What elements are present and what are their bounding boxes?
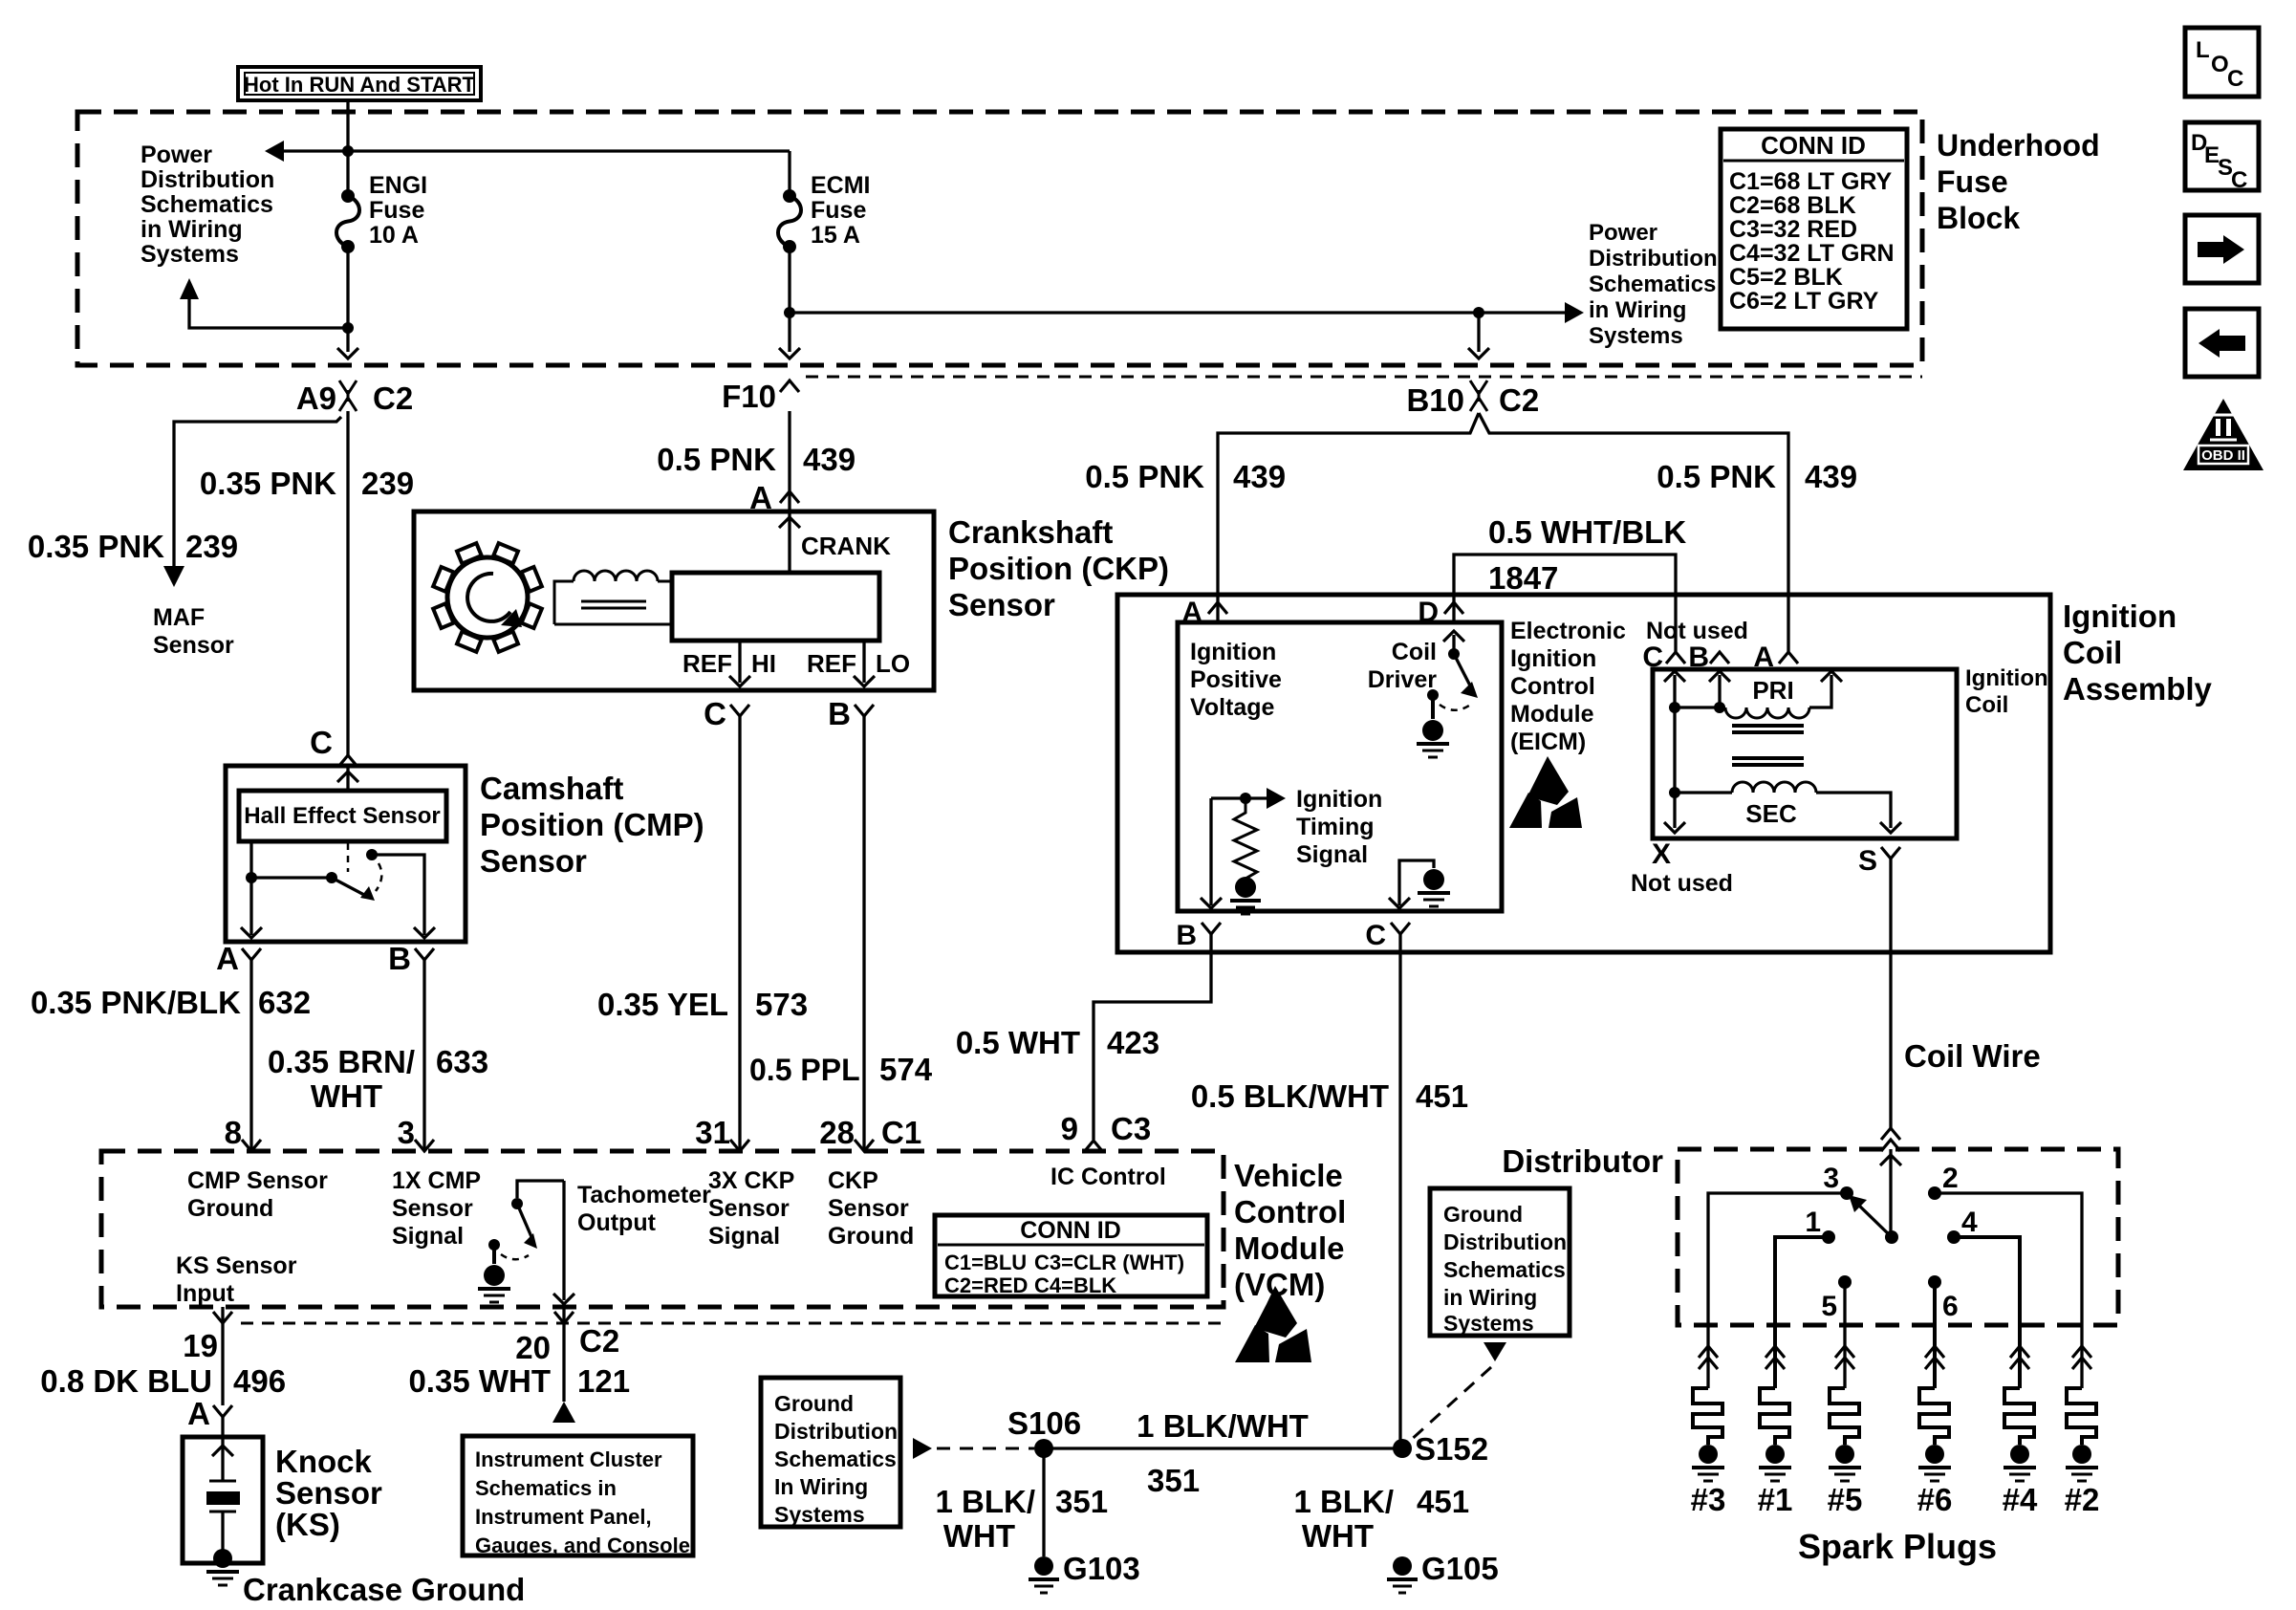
label 0.5 PNK 439 (right branch): [1657, 459, 1857, 494]
svg-text:Schematics in: Schematics in: [475, 1476, 617, 1500]
CKP sensor element box: [672, 573, 879, 641]
wire 423 EICM-B to VCM 9: [1094, 934, 1211, 1140]
wire 121 to instrument cluster: [552, 1307, 575, 1423]
label 0.5 WHT/BLK: [1488, 514, 1686, 550]
svg-text:Module: Module: [1510, 701, 1594, 728]
svg-text:Coil: Coil: [1965, 692, 2008, 718]
svg-text:574: 574: [879, 1052, 933, 1087]
plug wire 5: [1843, 1282, 1846, 1388]
svg-text:423: 423: [1107, 1025, 1159, 1060]
svg-text:10 A: 10 A: [369, 222, 419, 249]
svg-text:G103: G103: [1063, 1551, 1140, 1586]
svg-text:SEC: SEC: [1745, 799, 1797, 828]
svg-text:In Wiring: In Wiring: [774, 1474, 868, 1499]
svg-text:WHT: WHT: [943, 1518, 1015, 1554]
svg-text:Distribution: Distribution: [141, 166, 274, 193]
svg-text:1 BLK/: 1 BLK/: [1293, 1484, 1394, 1519]
icon DESC button: [2185, 122, 2259, 193]
coil wire inline connector: [1881, 1128, 1900, 1151]
svg-text:0.5 PNK: 0.5 PNK: [657, 442, 776, 477]
svg-text:#3: #3: [1691, 1482, 1726, 1517]
connector A at EICM: [1181, 597, 1227, 628]
svg-text:Timing: Timing: [1296, 814, 1374, 840]
svg-text:#1: #1: [1758, 1482, 1793, 1517]
wire 351 S106 to S152: [1044, 1447, 1402, 1449]
crankshaft position sensor box: [414, 511, 934, 690]
VCM connector-row dashed line: [241, 1322, 1224, 1325]
svg-text:Ignition: Ignition: [1296, 786, 1382, 813]
svg-text:WHT: WHT: [311, 1078, 382, 1114]
label Electronic Ignition Control Module (EICM): [1510, 618, 1626, 755]
connector A at knock sensor: [187, 1396, 232, 1431]
svg-text:Knock: Knock: [275, 1444, 373, 1479]
svg-text:Assembly: Assembly: [2063, 671, 2213, 707]
svg-text:C6=2 LT GRY: C6=2 LT GRY: [1729, 288, 1879, 315]
wire 573 CKP-C to VCM 31: [738, 716, 741, 1151]
svg-text:121: 121: [577, 1363, 630, 1399]
svg-text:Hot In RUN And START: Hot In RUN And START: [244, 73, 476, 97]
svg-text:Coil: Coil: [1392, 639, 1437, 665]
label Ignition Timing Signal: [1296, 786, 1382, 868]
svg-text:Schematics: Schematics: [1589, 272, 1716, 297]
svg-text:1: 1: [1805, 1207, 1821, 1238]
svg-text:Fuse: Fuse: [811, 197, 866, 224]
svg-text:Voltage: Voltage: [1190, 694, 1275, 721]
connector S below ignition coil: [1858, 845, 1900, 877]
svg-text:OBD II: OBD II: [2201, 447, 2245, 464]
svg-text:Output: Output: [577, 1209, 657, 1236]
connector B below CKP: [828, 696, 874, 731]
wire 451 EICM-C to S152: [1398, 934, 1401, 1448]
svg-text:CONN ID: CONN ID: [1761, 131, 1866, 160]
label 1847: [1488, 560, 1558, 596]
svg-text:IC Control: IC Control: [1051, 1164, 1166, 1190]
label Distributor: [1502, 1143, 1663, 1179]
svg-text:Distribution: Distribution: [1589, 246, 1718, 272]
svg-text:C: C: [704, 696, 726, 731]
ground G103: [1029, 1551, 1140, 1593]
label 3X CKP Sensor Signal: [708, 1167, 794, 1250]
coil wire: [1891, 859, 2041, 1128]
ignition coil assembly box: [1117, 595, 2050, 952]
svg-text:O: O: [2211, 52, 2229, 77]
svg-text:Sensor: Sensor: [392, 1195, 473, 1222]
svg-text:1 BLK/: 1 BLK/: [935, 1484, 1035, 1519]
connector 31 at VCM: [695, 1115, 749, 1151]
svg-text:Not used: Not used: [1631, 870, 1733, 897]
svg-text:PRI: PRI: [1752, 676, 1793, 705]
svg-text:in Wiring: in Wiring: [1589, 297, 1686, 323]
svg-text:439: 439: [803, 442, 856, 477]
plug wire 1: [1775, 1237, 1829, 1388]
rotor contact 3: [1823, 1163, 1853, 1200]
svg-text:MAF: MAF: [153, 604, 205, 631]
rotor contact 1: [1805, 1207, 1835, 1244]
svg-text:Tachometer: Tachometer: [577, 1182, 711, 1208]
svg-text:0.5 WHT: 0.5 WHT: [956, 1025, 1080, 1060]
svg-text:L: L: [2196, 37, 2210, 63]
underhood fuse block dashed boundary: [77, 112, 1922, 365]
tachometer switch: [488, 1181, 564, 1264]
label 0.35 BRN/ WHT 633: [268, 1044, 488, 1114]
up arrow into Power Distribution text: [180, 278, 354, 334]
svg-text:0.35 PNK: 0.35 PNK: [200, 466, 336, 501]
svg-text:632: 632: [258, 985, 311, 1020]
VCM CONN ID table: [935, 1215, 1207, 1297]
label 0.5 PNK 439 (F10 wire): [657, 442, 856, 477]
label Ignition Positive Voltage: [1190, 639, 1282, 721]
svg-text:Instrument Panel,: Instrument Panel,: [475, 1505, 652, 1529]
wire 574 CKP-B to VCM 28: [862, 716, 865, 1151]
svg-text:C: C: [1365, 920, 1386, 951]
svg-text:2: 2: [1942, 1163, 1959, 1194]
svg-text:Systems: Systems: [1443, 1311, 1534, 1336]
wire ECMI fuse down to F10: [779, 247, 800, 359]
svg-text:Input: Input: [176, 1280, 235, 1307]
svg-text:C1=68 LT GRY: C1=68 LT GRY: [1729, 168, 1893, 195]
connector 3 at VCM: [398, 1115, 434, 1151]
CRANK wire inside CKP: [779, 511, 891, 573]
rotor contact 4: [1947, 1207, 1978, 1244]
svg-text:Positive: Positive: [1190, 666, 1282, 693]
svg-text:C4=32 LT GRN: C4=32 LT GRN: [1729, 240, 1895, 267]
svg-text:Schematics: Schematics: [774, 1447, 897, 1471]
svg-text:0.35 PNK: 0.35 PNK: [28, 529, 164, 564]
spark plug #5: [1828, 1346, 1863, 1517]
label Vehicle Control Module (VCM): [1234, 1158, 1346, 1302]
ESD warning symbol (EICM): [1509, 756, 1582, 828]
svg-text:CKP: CKP: [828, 1167, 878, 1194]
svg-text:5: 5: [1821, 1291, 1837, 1322]
label Ignition Coil (inner): [1965, 665, 2048, 718]
connector B10 C2: [1406, 381, 1539, 418]
timing resistor: [1234, 798, 1257, 885]
svg-text:C: C: [1642, 642, 1663, 673]
wire down to fuse ECMI: [788, 151, 791, 196]
svg-text:Systems: Systems: [774, 1502, 865, 1527]
svg-text:Ignition: Ignition: [1510, 645, 1596, 672]
rotor arm: [1849, 1195, 1898, 1244]
plug wire 3: [1708, 1193, 1847, 1388]
svg-text:C5=2 BLK: C5=2 BLK: [1729, 264, 1843, 291]
svg-text:20: 20: [515, 1330, 551, 1365]
svg-text:0.35 WHT: 0.35 WHT: [408, 1363, 551, 1399]
splice S106: [1007, 1405, 1081, 1458]
label 1X CMP Sensor Signal: [392, 1167, 481, 1250]
fuse ENGI 10 A: [336, 189, 359, 253]
CONN ID table (underhood fuse block): [1721, 129, 1907, 329]
EICM box: [1178, 622, 1502, 911]
underhood fuse block connector-row dashed line: [806, 376, 1922, 379]
label Spark Plugs: [1798, 1527, 1997, 1566]
connector D at EICM: [1418, 597, 1463, 628]
svg-text:X: X: [1652, 838, 1671, 870]
wire A9 to CMP sensor: [346, 411, 349, 755]
hall effect sensor box: [239, 791, 446, 841]
plug wire 6: [1933, 1282, 1937, 1388]
REF HI wire: [729, 641, 750, 686]
svg-text:Position (CKP): Position (CKP): [948, 551, 1169, 586]
svg-text:31: 31: [695, 1115, 730, 1150]
svg-text:451: 451: [1417, 1484, 1469, 1519]
svg-text:Underhood: Underhood: [1937, 128, 2100, 163]
svg-text:A: A: [216, 941, 239, 976]
tachometer output wire: [553, 1181, 574, 1304]
instrument cluster reference box: [463, 1436, 693, 1557]
CKP pickup coil element: [554, 571, 672, 624]
rotor contact 5: [1821, 1275, 1852, 1322]
spark plug #4: [2003, 1346, 2038, 1517]
label X Not used: [1631, 838, 1733, 897]
bus wire ECMI to B10 junction with right arrow: [790, 302, 1584, 323]
knock sensor element: [206, 1437, 240, 1551]
svg-text:Ground: Ground: [774, 1391, 854, 1416]
svg-text:C: C: [310, 725, 333, 760]
svg-text:C2: C2: [373, 381, 413, 416]
ground G105: [1387, 1551, 1499, 1593]
connector A9 C2: [296, 381, 413, 416]
svg-text:Signal: Signal: [1296, 841, 1368, 868]
svg-text:Power: Power: [141, 141, 212, 168]
svg-text:Crankcase Ground: Crankcase Ground: [243, 1572, 525, 1607]
svg-text:9: 9: [1061, 1111, 1078, 1146]
svg-text:G105: G105: [1421, 1551, 1499, 1586]
transformer core lines: [1732, 726, 1804, 765]
label MAF Sensor: [153, 604, 234, 659]
label SEC: [1745, 799, 1797, 828]
svg-text:F10: F10: [722, 379, 776, 414]
label Crankshaft Position (CKP) Sensor: [948, 514, 1169, 622]
svg-text:C: C: [2227, 66, 2243, 92]
svg-text:6: 6: [1942, 1291, 1959, 1322]
label Not used (top pins): [1646, 618, 1748, 644]
label Coil Driver: [1368, 639, 1438, 693]
svg-text:0.5 PPL: 0.5 PPL: [749, 1053, 860, 1087]
svg-text:0.35 BRN/: 0.35 BRN/: [268, 1044, 415, 1079]
svg-text:S: S: [1858, 845, 1877, 877]
svg-text:Distribution: Distribution: [774, 1419, 898, 1444]
svg-text:Sensor: Sensor: [828, 1195, 909, 1222]
svg-text:439: 439: [1233, 459, 1286, 494]
svg-text:Spark Plugs: Spark Plugs: [1798, 1527, 1997, 1566]
svg-text:0.8 DK BLU: 0.8 DK BLU: [40, 1363, 212, 1399]
wire 632 CMP-A to VCM 8: [249, 960, 252, 1151]
svg-text:Sensor: Sensor: [480, 843, 587, 879]
svg-text:Gauges, and Console: Gauges, and Console: [475, 1534, 690, 1557]
wire 1847 loop: [1454, 555, 1676, 654]
svg-text:KS Sensor: KS Sensor: [176, 1252, 297, 1279]
svg-text:REF: REF: [682, 649, 732, 678]
svg-text:A: A: [1753, 642, 1774, 673]
svg-text:Module: Module: [1234, 1230, 1344, 1266]
vehicle control module dashed box: [101, 1151, 1224, 1307]
PRI winding: [1675, 671, 1842, 718]
svg-text:(EICM): (EICM): [1510, 729, 1586, 755]
label CMP Sensor Ground: [187, 1167, 328, 1222]
svg-text:0.5 PNK: 0.5 PNK: [1657, 459, 1776, 494]
svg-text:(KS): (KS): [275, 1507, 340, 1542]
svg-text:S152: S152: [1415, 1431, 1488, 1467]
connector 28 C1 at VCM: [819, 1115, 921, 1151]
spark plug #6: [1917, 1346, 1953, 1517]
svg-text:A9: A9: [296, 381, 336, 416]
rotor contact 6: [1928, 1275, 1959, 1322]
svg-text:C1: C1: [881, 1115, 921, 1150]
svg-text:Camshaft: Camshaft: [480, 771, 623, 806]
ignition coil box: [1653, 669, 1957, 838]
connector F10: [722, 379, 799, 414]
svg-text:Ignition: Ignition: [1965, 665, 2048, 691]
svg-text:Coil Wire: Coil Wire: [1904, 1038, 2041, 1074]
splice S152: [1393, 1431, 1488, 1467]
coil primary left leg: [1664, 671, 1685, 833]
svg-text:CRANK: CRANK: [801, 532, 891, 560]
wire B10 junction down: [1468, 313, 1489, 359]
svg-text:C2: C2: [579, 1323, 619, 1359]
svg-text:Coil: Coil: [2063, 635, 2122, 670]
EICM right case ground: [1418, 869, 1450, 906]
svg-text:C2=68 BLK: C2=68 BLK: [1729, 192, 1856, 219]
svg-text:1X CMP: 1X CMP: [392, 1167, 481, 1194]
label 0.35 PNK 239 (A9 wire): [200, 466, 414, 501]
label 0.35 WHT 121: [408, 1363, 630, 1399]
svg-text:351: 351: [1055, 1484, 1108, 1519]
svg-text:573: 573: [755, 987, 808, 1022]
svg-text:0.35 PNK/BLK: 0.35 PNK/BLK: [31, 985, 241, 1020]
svg-text:0.5 BLK/WHT: 0.5 BLK/WHT: [1191, 1078, 1389, 1114]
svg-text:3: 3: [398, 1115, 415, 1150]
svg-text:in Wiring: in Wiring: [141, 216, 243, 243]
wire split from B10 to EICM A and coil A: [1218, 413, 1788, 654]
spark plug #1: [1758, 1346, 1793, 1517]
rotor feed wire: [1880, 1149, 1901, 1237]
connector B below CMP: [388, 941, 434, 976]
label 0.5 PNK 439 (left branch): [1085, 459, 1286, 494]
dashed lead to S106: [913, 1438, 1034, 1459]
connector B at ignition coil (not used): [1688, 642, 1729, 673]
svg-text:351: 351: [1147, 1463, 1200, 1498]
icon forward arrow button: [2185, 215, 2259, 283]
svg-text:in Wiring: in Wiring: [1443, 1285, 1537, 1310]
svg-text:Block: Block: [1937, 201, 2020, 235]
icon back arrow button: [2185, 309, 2259, 377]
svg-text:#4: #4: [2003, 1482, 2038, 1517]
svg-text:Electronic: Electronic: [1510, 618, 1626, 644]
svg-text:Schematics: Schematics: [141, 191, 273, 218]
svg-text:Hall Effect Sensor: Hall Effect Sensor: [244, 803, 440, 829]
label 1 BLK/WHT 351 (horizontal): [1137, 1408, 1309, 1498]
connector 8 at VCM: [225, 1115, 261, 1151]
svg-text:HI: HI: [751, 649, 776, 678]
svg-text:ECMI: ECMI: [811, 172, 871, 199]
svg-text:Not used: Not used: [1646, 618, 1748, 644]
plug wire 2: [1935, 1193, 2082, 1388]
svg-text:8: 8: [225, 1115, 242, 1150]
svg-text:28: 28: [819, 1115, 855, 1150]
svg-text:496: 496: [233, 1363, 286, 1399]
svg-text:239: 239: [185, 529, 238, 564]
CKP reluctor gear icon: [433, 543, 542, 652]
svg-text:451: 451: [1416, 1078, 1468, 1114]
ground distribution reference box (right): [1430, 1188, 1570, 1336]
svg-text:Vehicle: Vehicle: [1234, 1158, 1343, 1193]
fuse ECMI 15 A: [778, 189, 801, 253]
svg-text:C2: C2: [1499, 382, 1539, 418]
label 0.5 BLK/WHT 451: [1191, 1078, 1468, 1114]
svg-text:#5: #5: [1828, 1482, 1863, 1517]
knock sensor box: [183, 1437, 263, 1563]
svg-text:ENGI: ENGI: [369, 172, 427, 199]
svg-text:Ground: Ground: [187, 1195, 273, 1222]
svg-text:Crankshaft: Crankshaft: [948, 514, 1113, 550]
connector A below CMP: [216, 941, 261, 976]
ESD warning symbol (VCM): [1235, 1286, 1311, 1362]
svg-text:Control: Control: [1510, 673, 1595, 700]
svg-text:0.35 YEL: 0.35 YEL: [597, 987, 728, 1022]
svg-text:Signal: Signal: [708, 1223, 780, 1250]
MAF sensor branch wire: [163, 417, 341, 587]
svg-text:B: B: [828, 696, 851, 731]
svg-text:Position (CMP): Position (CMP): [480, 807, 704, 842]
connector A at CKP sensor: [749, 480, 799, 515]
svg-text:Systems: Systems: [1589, 323, 1683, 349]
svg-text:0.5 PNK: 0.5 PNK: [1085, 459, 1204, 494]
label Power Distribution Schematics in Wiring Systems (left): [141, 141, 274, 268]
plug wire 4: [1954, 1237, 2020, 1388]
label Camshaft Position (CMP) Sensor: [480, 771, 704, 879]
svg-text:Sensor: Sensor: [153, 632, 234, 659]
svg-text:A: A: [187, 1396, 210, 1431]
svg-text:19: 19: [183, 1328, 218, 1363]
camshaft position sensor box: [226, 766, 466, 942]
label Tachometer Output: [577, 1182, 711, 1236]
label CKP Sensor Ground: [828, 1167, 914, 1250]
CMP internal feed wire with up arrow: [337, 766, 358, 789]
svg-text:C3=32 RED: C3=32 RED: [1729, 216, 1857, 243]
top bus wire to ECMI: [348, 149, 790, 152]
svg-text:B: B: [388, 941, 411, 976]
tachometer switch ground: [478, 1265, 510, 1302]
svg-text:CMP Sensor: CMP Sensor: [187, 1167, 328, 1194]
wire 633 CMP-B to VCM 3: [422, 960, 425, 1151]
svg-text:C1=BLU: C1=BLU: [944, 1251, 1027, 1274]
svg-text:633: 633: [436, 1044, 488, 1079]
labels REF HI REF LO: [682, 649, 910, 678]
label Crankcase Ground: [243, 1572, 525, 1607]
power feed label box: Hot In RUN And START: [238, 67, 481, 100]
coil B stub leg: [1709, 671, 1730, 713]
svg-text:1847: 1847: [1488, 560, 1558, 596]
rotor contact 2: [1928, 1163, 1959, 1200]
ignition timing signal branch: [1201, 788, 1286, 908]
connector C at ignition coil: [1642, 642, 1685, 673]
connector C below CKP: [704, 696, 749, 731]
svg-text:#6: #6: [1917, 1482, 1953, 1517]
label 0.35 YEL 573: [597, 987, 808, 1022]
svg-text:C4=BLK: C4=BLK: [1034, 1273, 1116, 1297]
svg-text:C3: C3: [1111, 1111, 1151, 1146]
svg-text:Ignition: Ignition: [1190, 639, 1276, 665]
svg-text:Ignition: Ignition: [2063, 598, 2177, 634]
svg-text:B10: B10: [1406, 382, 1464, 418]
label ECMI Fuse 15 A: [811, 172, 871, 249]
svg-text:Sensor: Sensor: [708, 1195, 790, 1222]
label 0.35 PNK 239 (MAF branch): [28, 529, 238, 564]
icon LOC button: [2185, 28, 2259, 97]
connector B below EICM: [1176, 920, 1221, 951]
connector 20 C2 at VCM: [515, 1312, 619, 1365]
timing resistor ground: [1230, 877, 1261, 914]
